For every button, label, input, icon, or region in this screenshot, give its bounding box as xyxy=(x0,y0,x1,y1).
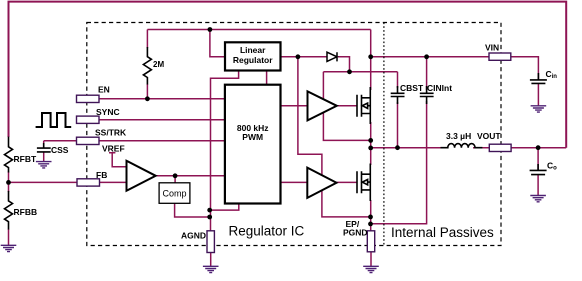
wire linear regulator input drop xyxy=(210,30,225,57)
wire RFBT bottom to FB node xyxy=(8,172,10,193)
wire VCC path linreg to lower driver xyxy=(298,57,371,217)
svg-text:Comp: Comp xyxy=(163,189,187,199)
svg-text:CBST: CBST xyxy=(400,83,424,93)
wire CBST top lead xyxy=(397,72,399,88)
svg-text:CSS: CSS xyxy=(51,145,69,155)
svg-text:CINInt: CINInt xyxy=(427,83,452,93)
wire lower FET source to EP xyxy=(370,200,372,232)
wire FB row xyxy=(9,181,127,183)
svg-text:PGND: PGND xyxy=(343,228,368,238)
wire boost rail to CBST xyxy=(323,71,397,73)
wire upper FET drain xyxy=(370,57,372,90)
wire inductor to VOUT pin and out to Co xyxy=(473,147,566,149)
wire CSS top lead xyxy=(43,141,45,148)
svg-text:PWM: PWM xyxy=(242,132,263,142)
svg-text:RFBB: RFBB xyxy=(14,207,38,217)
wire upper driver to gate xyxy=(337,105,357,107)
svg-text:Co: Co xyxy=(547,161,557,172)
black component symbols xyxy=(5,47,547,230)
wire SW row to inductor xyxy=(371,147,444,149)
wire EP pin to ground xyxy=(370,252,372,267)
ground RFBB xyxy=(1,245,17,251)
svg-text:EN: EN xyxy=(98,85,110,95)
wire CSS bottom lead xyxy=(43,152,45,162)
svg-text:AGND: AGND xyxy=(181,230,206,240)
ground symbols (purple) xyxy=(1,106,547,273)
wire linreg output 2 to PWM xyxy=(266,71,268,85)
wire VIN rail riser to top rail xyxy=(370,30,372,57)
wire error amp output to PWM xyxy=(156,175,225,177)
wire VIN rail xyxy=(371,56,490,58)
wire CINInt top lead xyxy=(426,57,428,90)
svg-text:3.3 µH: 3.3 µH xyxy=(446,131,471,141)
resistor 2M xyxy=(143,47,151,85)
wire boost to upper driver and SW return xyxy=(323,72,370,141)
pin VIN xyxy=(489,53,511,60)
svg-text:Regulator IC: Regulator IC xyxy=(229,224,305,239)
wire Cin bottom lead xyxy=(537,83,539,105)
svg-text:VOUT: VOUT xyxy=(477,131,501,141)
pin EN xyxy=(77,95,100,102)
svg-text:VREF: VREF xyxy=(102,144,125,154)
pin EP/PGND xyxy=(367,231,374,252)
wire VIN pin to Cin xyxy=(510,57,538,80)
dotted internal passives divider xyxy=(383,23,385,246)
transistor Q1 upper mosfet xyxy=(357,87,370,124)
wire 2M resistor top lead xyxy=(146,30,148,49)
pin AGND xyxy=(207,231,214,253)
pin FB xyxy=(77,179,100,186)
wire lower driver to gate xyxy=(337,181,358,183)
wire top internal rail xyxy=(147,29,370,31)
wire 2M resistor bottom lead xyxy=(146,84,148,99)
block linear regulator xyxy=(225,42,281,70)
inductor 3.3uH xyxy=(441,144,483,148)
pin VOUT xyxy=(489,144,511,151)
wire VREF stub xyxy=(109,153,127,167)
svg-text:Cin: Cin xyxy=(546,69,558,80)
wire SYNC row xyxy=(98,119,225,121)
svg-text:Internal Passives: Internal Passives xyxy=(391,225,494,240)
ground Cin xyxy=(531,106,547,112)
block 800kHz PWM xyxy=(225,85,281,204)
svg-text:Linear: Linear xyxy=(240,45,266,55)
capacitor CSS xyxy=(37,143,51,152)
svg-text:FB: FB xyxy=(96,170,107,180)
ground Co xyxy=(530,196,546,202)
svg-text:SYNC: SYNC xyxy=(96,107,120,117)
wire comp bottom to AGND xyxy=(175,203,210,217)
wire CINInt bottom return to EP xyxy=(371,101,427,224)
capacitor CINInt xyxy=(420,86,434,104)
wire PWM to lower driver input xyxy=(281,181,308,183)
wire lower FET drain xyxy=(370,148,372,165)
resistor RFBT xyxy=(5,137,13,173)
wire AGND vertical from linreg xyxy=(211,71,239,232)
wire Co top lead xyxy=(537,148,539,171)
svg-text:Regulator: Regulator xyxy=(233,55,273,65)
wire feedback loop VOUT to divider xyxy=(9,2,567,148)
capacitor Co xyxy=(530,164,547,175)
wire upper FET source to SW xyxy=(370,122,372,148)
wire AGND pin to ground xyxy=(210,253,212,267)
op-amp lower gate driver xyxy=(307,168,336,198)
transistor Q2 lower mosfet xyxy=(357,164,370,202)
wire comp drop xyxy=(174,176,176,183)
svg-text:RFBT: RFBT xyxy=(14,154,37,164)
wire PWM bottom pin to AGND xyxy=(210,204,239,211)
wire diode cathode to boost node xyxy=(338,57,350,72)
capacitor Cin xyxy=(530,73,547,83)
wire linreg output to diode xyxy=(281,56,328,58)
wire EN row xyxy=(90,98,225,100)
ground EP/PGND xyxy=(363,266,379,272)
diode D1 boot xyxy=(327,52,337,61)
resistor RFBB xyxy=(5,191,13,230)
wire SS/TRK row from CSS to PWM xyxy=(44,140,225,142)
sync square wave symbol xyxy=(36,113,72,127)
capacitor CBST xyxy=(391,86,405,104)
wire RFBB bottom to ground xyxy=(8,229,10,245)
pin SYNC xyxy=(77,116,100,123)
wire Co bottom lead xyxy=(537,175,539,196)
svg-text:2M: 2M xyxy=(153,60,164,69)
dashed IC boundary box xyxy=(87,23,501,246)
ground CSS xyxy=(36,162,52,168)
block comp xyxy=(159,183,190,204)
pin SS/TRK xyxy=(77,137,100,144)
ground AGND xyxy=(203,266,219,272)
svg-text:SS/TRK: SS/TRK xyxy=(95,128,127,138)
op-amp upper gate driver xyxy=(308,91,337,120)
op-amp error amplifier xyxy=(127,161,156,191)
wire CBST bottom lead to SW xyxy=(397,102,399,148)
svg-text:VIN: VIN xyxy=(485,43,499,53)
wire PWM to upper driver input xyxy=(281,105,308,107)
